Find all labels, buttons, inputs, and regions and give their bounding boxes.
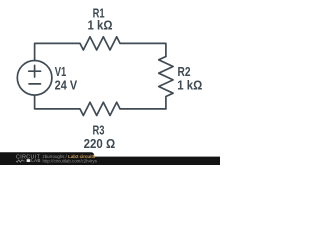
svg-text:http://circuitlab.com/c2h4rys: http://circuitlab.com/c2h4rys <box>43 159 98 164</box>
svg-text:220 Ω: 220 Ω <box>84 137 116 151</box>
svg-text:V1: V1 <box>55 65 67 79</box>
svg-text:24 V: 24 V <box>55 78 78 92</box>
svg-text:LAB: LAB <box>31 158 41 163</box>
svg-text:R2: R2 <box>178 65 191 79</box>
svg-text:R3: R3 <box>93 124 105 138</box>
svg-text:1 kΩ: 1 kΩ <box>88 18 113 32</box>
svg-text:1 kΩ: 1 kΩ <box>177 78 202 92</box>
